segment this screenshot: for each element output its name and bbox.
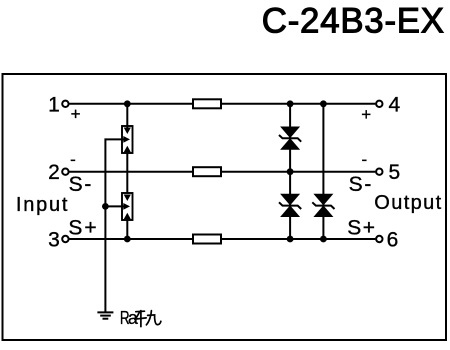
svg-text:S+: S+	[68, 217, 98, 240]
svg-text:-: -	[70, 150, 76, 169]
svg-text:Input: Input	[16, 194, 69, 216]
svg-text:5: 5	[389, 161, 401, 184]
svg-text:S+: S+	[347, 217, 376, 240]
svg-text:3: 3	[48, 229, 60, 252]
svg-text:+: +	[71, 104, 81, 123]
svg-text:+: +	[361, 105, 371, 124]
svg-text:2: 2	[48, 161, 60, 184]
svg-text:S-: S-	[349, 173, 374, 196]
svg-text:C-24B3-EX: C-24B3-EX	[262, 1, 445, 40]
svg-text:6: 6	[387, 229, 399, 252]
svg-text:1: 1	[48, 93, 60, 116]
svg-text:Output: Output	[374, 192, 442, 214]
svg-text:S-: S-	[69, 173, 94, 196]
svg-text:-: -	[361, 150, 367, 169]
svg-text:4: 4	[389, 93, 401, 116]
